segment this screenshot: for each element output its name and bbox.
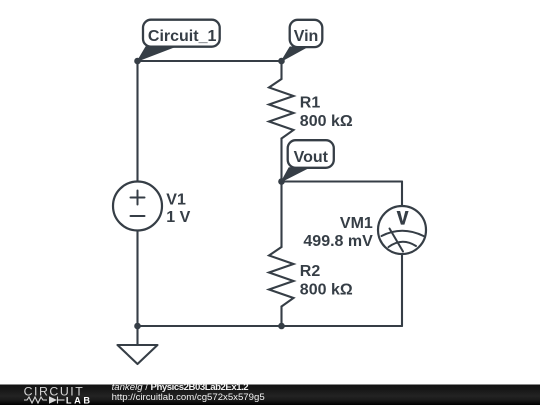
svg-text:V1: V1 <box>166 191 186 208</box>
svg-text:VM1: VM1 <box>340 215 373 232</box>
svg-text:Circuit_1: Circuit_1 <box>148 28 217 45</box>
svg-text:R1: R1 <box>300 94 321 111</box>
svg-text:Vout: Vout <box>294 149 329 166</box>
svg-text:800 kΩ: 800 kΩ <box>300 281 353 298</box>
svg-text:LAB: LAB <box>66 395 93 405</box>
svg-text:499.8 mV: 499.8 mV <box>303 233 373 250</box>
svg-text:http://circuitlab.com/cg572x5x: http://circuitlab.com/cg572x5x579g5 <box>112 392 265 403</box>
svg-text:Vin: Vin <box>294 28 319 45</box>
svg-text:1 V: 1 V <box>166 209 190 226</box>
svg-text:800 kΩ: 800 kΩ <box>300 113 353 130</box>
svg-text:R2: R2 <box>300 263 321 280</box>
